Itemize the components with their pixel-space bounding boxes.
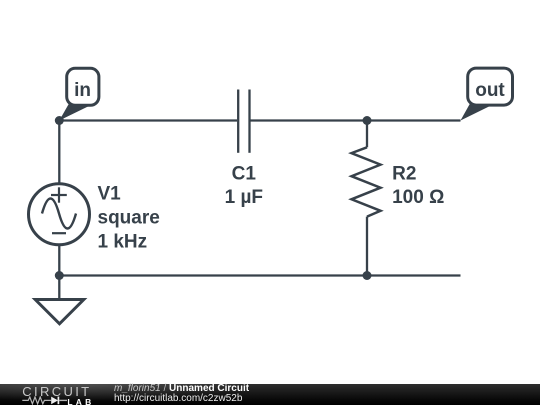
svg-text:1 µF: 1 µF — [225, 187, 263, 208]
svg-text:V1: V1 — [98, 183, 122, 204]
svg-text:R2: R2 — [392, 164, 416, 185]
svg-text:LAB: LAB — [67, 397, 94, 405]
svg-text:C1: C1 — [232, 164, 257, 185]
svg-text:in: in — [74, 80, 91, 101]
svg-text:100 Ω: 100 Ω — [392, 187, 444, 208]
svg-text:square: square — [98, 207, 160, 228]
svg-text:1 kHz: 1 kHz — [98, 231, 148, 252]
svg-text:out: out — [475, 80, 505, 101]
